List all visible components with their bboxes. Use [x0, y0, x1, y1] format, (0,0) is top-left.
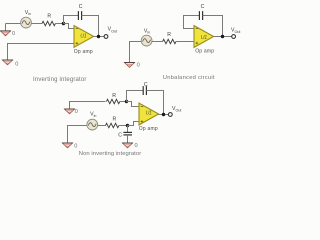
svg-text:Inverting integrator: Inverting integrator [33, 77, 87, 83]
wire R2 to non-inverting input [176, 41, 194, 43]
capacitor C1 [78, 11, 81, 20]
svg-text:R: R [167, 32, 171, 38]
svg-text:R: R [113, 116, 117, 122]
svg-text:Op amp: Op amp [139, 126, 158, 132]
ground G6 [122, 143, 133, 148]
wire C3 to output drop [146, 91, 163, 115]
wire source to R1 [31, 23, 42, 25]
svg-text:0: 0 [137, 63, 140, 69]
source V3 [87, 119, 98, 130]
svg-text:Unbalanced circuit: Unbalanced circuit [163, 75, 215, 81]
wire ground4 to R3 [70, 102, 106, 110]
svg-text:R: R [112, 93, 116, 99]
wire ground1 to source [6, 23, 21, 25]
source V2 [141, 35, 152, 46]
capacitor C3 [143, 86, 146, 95]
wire source2 to R2 [152, 41, 163, 43]
wire U2 output [214, 36, 232, 38]
wire source3 to R4 [98, 125, 106, 127]
wire U3 output [159, 114, 169, 116]
svg-text:C: C [118, 132, 122, 138]
pin plus U1 [76, 42, 79, 45]
svg-text:0: 0 [135, 143, 138, 149]
svg-text:R: R [47, 14, 51, 20]
pin minus U1 [76, 28, 79, 30]
svg-text:C: C [144, 82, 148, 88]
pin minus U3 [141, 106, 144, 108]
wire R3 to node D [120, 101, 127, 103]
svg-text:U1: U1 [80, 34, 86, 40]
svg-text:C: C [79, 4, 83, 10]
ground G3 [124, 63, 135, 68]
pin plus U2 [196, 42, 199, 45]
svg-text:Op amp: Op amp [195, 49, 214, 55]
wire R4 to node E [119, 125, 128, 127]
svg-text:Op amp: Op amp [74, 49, 93, 55]
wire inverting input feedback loop [184, 16, 200, 29]
wire ground3 to source2 [130, 42, 142, 63]
wire node D up to C3 [127, 91, 144, 102]
resistor R3 [106, 99, 119, 103]
wire node A to inverting input [64, 24, 75, 29]
ground G1 [0, 31, 11, 36]
wire non-inverting input to ground rail [8, 44, 75, 61]
source V1 [21, 17, 32, 28]
capacitor C2 [199, 11, 202, 20]
node C junction dot [221, 35, 224, 38]
ground G5 [62, 143, 73, 148]
wire node A up to C1 [64, 16, 79, 24]
node E junction dot [126, 124, 129, 127]
capacitor C4 horizontal plates [123, 132, 132, 135]
pin minus U2 [196, 28, 199, 30]
wire source3 left to ground5 [68, 126, 87, 144]
node D junction dot [125, 100, 128, 103]
wire R1 to node A [55, 23, 63, 25]
svg-text:0: 0 [74, 143, 77, 149]
op-amp U1 [74, 26, 94, 48]
svg-text:C: C [201, 4, 205, 10]
wire C1 to output drop [82, 16, 99, 37]
svg-text:0: 0 [12, 31, 15, 37]
wire node D to inverting input [127, 102, 140, 107]
svg-text:0: 0 [15, 61, 18, 67]
wire U1 output [94, 36, 105, 38]
wire node E to non-inverting input [128, 122, 140, 126]
svg-text:U1: U1 [146, 111, 152, 117]
svg-text:Non inverting integrator: Non inverting integrator [79, 151, 141, 157]
terminal Vout2 [232, 35, 236, 39]
resistor R2 [163, 39, 176, 43]
op-amp U3 [139, 103, 159, 125]
pin plus U3 [141, 120, 144, 123]
node B junction dot [97, 35, 100, 38]
ground G2 [2, 60, 13, 65]
wire C4 to ground6 [127, 135, 129, 143]
op-amp U2 [194, 26, 214, 48]
resistor R4 [106, 123, 119, 127]
wire ground1 drop [5, 24, 7, 31]
terminal Vout3 [168, 113, 172, 117]
svg-text:U1: U1 [201, 35, 207, 41]
node A junction dot [62, 22, 65, 25]
node F junction dot [162, 113, 165, 116]
ground G4 [64, 109, 75, 114]
resistor R1 [42, 21, 55, 25]
wire node E down to C4 [127, 126, 129, 133]
terminal Vout1 [104, 35, 108, 39]
svg-text:0: 0 [75, 109, 78, 115]
wire C2 to output drop [203, 16, 223, 37]
